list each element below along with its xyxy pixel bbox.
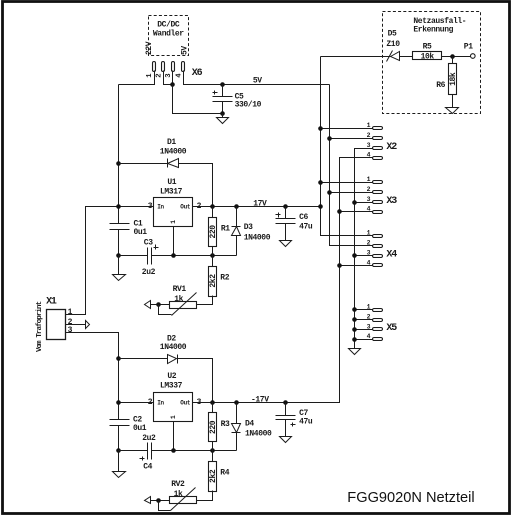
wire C4 to ADJ and R3/R4 node <box>152 450 237 452</box>
svg-text:1: 1 <box>146 73 154 78</box>
node GND bus / X3 pin3 <box>352 200 357 205</box>
svg-text:Out: Out <box>180 400 191 407</box>
arrow (RV2 ground ref) <box>145 497 151 504</box>
connector X6 pin 4 <box>182 62 185 72</box>
capacitor C1 plates <box>110 223 130 225</box>
wire D4 bottom <box>236 433 238 451</box>
connector X5 pin 3 <box>373 328 383 331</box>
svg-text:Z10: Z10 <box>386 40 400 49</box>
svg-text:1N4000: 1N4000 <box>244 233 271 242</box>
svg-text:RV2: RV2 <box>171 480 185 489</box>
svg-text:4: 4 <box>367 333 371 340</box>
connector X3 pin 1 <box>373 181 383 184</box>
connector X2 pin 4 <box>373 157 383 160</box>
svg-text:2: 2 <box>367 132 371 139</box>
wire RV2 wiper tie <box>159 501 171 511</box>
node Out/R3/D2 <box>210 400 215 405</box>
ground (C5) <box>217 118 229 124</box>
wire U1 ADJ pin <box>173 227 175 256</box>
wire gnd node to C4 <box>119 450 148 452</box>
svg-text:DC/DC: DC/DC <box>157 21 180 30</box>
svg-text:2k2: 2k2 <box>209 274 218 288</box>
node C5 bottom / gnd <box>220 111 225 116</box>
Netzausfall-Erkennung box (dashed) <box>383 12 481 114</box>
node ADJ <box>171 253 176 258</box>
connector X6 pin 2 <box>162 62 165 72</box>
node GND bus / X5 pin1 <box>352 307 357 312</box>
node R5/R6/P1 <box>450 54 455 59</box>
node +17V bus / X2 pin1 <box>318 126 323 131</box>
wire D4 top <box>236 403 238 424</box>
capacitor C3 plus sign <box>154 245 159 250</box>
wire lower bus to U2 In <box>119 402 154 404</box>
diode D3 <box>232 226 241 228</box>
svg-text:4: 4 <box>367 259 371 266</box>
wire gnd node to C3 <box>119 255 148 257</box>
svg-text:X1: X1 <box>46 297 57 308</box>
DC/DC converter module box (dashed) <box>149 16 189 56</box>
diode D2 <box>168 355 177 364</box>
svg-text:5V: 5V <box>253 76 262 85</box>
node C1/C3 ground node <box>116 253 121 258</box>
svg-text:2: 2 <box>367 240 371 247</box>
connector X1 box <box>47 310 66 340</box>
svg-text:0u1: 0u1 <box>134 228 148 237</box>
node -17V bus / X3 pin4 <box>337 209 342 214</box>
wire C5 bottom <box>222 102 224 114</box>
wire 22V bus down to C1 <box>118 85 120 224</box>
connector X2 pin 2 <box>373 137 383 140</box>
wire X4 pin3 <box>355 255 374 257</box>
wire R1 top <box>212 207 214 218</box>
svg-text:U2: U2 <box>167 372 176 381</box>
GND bus (vertical) <box>355 149 374 340</box>
svg-text:3: 3 <box>68 326 73 335</box>
svg-text:FGG9020N Netzteil: FGG9020N Netzteil <box>347 490 474 506</box>
svg-text:220: 220 <box>209 420 218 434</box>
node R3/R4/D4 <box>210 448 215 453</box>
-17V bus (vertical) <box>193 158 374 403</box>
wire D1 left <box>119 163 168 165</box>
wire X3 pin3 <box>355 202 374 204</box>
svg-text:2u2: 2u2 <box>142 268 156 277</box>
wire D2 left <box>119 358 168 360</box>
zener diode D5 <box>391 52 400 61</box>
wire GND bus to ground <box>354 340 356 349</box>
node GND bus / X4 pin3 <box>352 253 357 258</box>
wire R4 bottom to RV2 <box>197 491 213 501</box>
ground (C1/C3) <box>113 275 126 281</box>
svg-text:47u: 47u <box>299 222 313 231</box>
svg-text:R2: R2 <box>220 273 229 282</box>
ground (connector bus) <box>349 349 361 355</box>
svg-text:22V: 22V <box>145 41 154 55</box>
wire X5 pin4 <box>355 339 374 341</box>
node 5V bus / X3 pin2 <box>327 190 332 195</box>
svg-text:1k: 1k <box>174 490 183 499</box>
svg-text:1N4000: 1N4000 <box>160 147 187 156</box>
svg-text:1: 1 <box>367 304 371 311</box>
wire D3 top <box>236 207 238 227</box>
wire X1 pin1 to U1 In <box>66 207 154 315</box>
svg-text:10k: 10k <box>421 53 435 62</box>
wire C6 bottom <box>285 224 287 241</box>
wire C5 top <box>222 85 224 97</box>
wire U2 ADJ pin <box>173 422 175 451</box>
svg-text:1k: 1k <box>174 295 183 304</box>
svg-text:LM317: LM317 <box>160 187 183 196</box>
trimmer RV2 body <box>170 497 197 504</box>
svg-text:3: 3 <box>165 73 173 77</box>
trimmer RV1 wiper arrow <box>172 293 197 316</box>
node 22V bus / D1 anode <box>116 161 121 166</box>
svg-text:C6: C6 <box>299 213 308 222</box>
svg-text:R6: R6 <box>436 81 445 90</box>
svg-text:RV1: RV1 <box>173 285 187 294</box>
svg-text:1: 1 <box>170 220 177 224</box>
wire R3 bottom <box>212 442 214 451</box>
wire +17V bus to D5 <box>321 56 391 58</box>
node -17V / C7 <box>283 400 288 405</box>
wire RV1 left <box>151 304 170 306</box>
wire X2 pin1 <box>321 128 374 130</box>
svg-text:3: 3 <box>367 250 371 257</box>
node RV2 wiper tie <box>156 498 161 503</box>
svg-text:X4: X4 <box>386 249 397 260</box>
wire D2 right to output <box>178 359 213 403</box>
svg-text:17V: 17V <box>253 200 267 209</box>
svg-text:R5: R5 <box>423 43 432 52</box>
connector X5 pin 4 <box>373 338 383 341</box>
ground (C7) <box>280 437 292 443</box>
wire X6 pin2 to gnd node <box>164 71 173 85</box>
svg-text:3: 3 <box>367 196 371 203</box>
svg-text:X6: X6 <box>192 68 203 79</box>
svg-text:In: In <box>157 204 164 211</box>
node lower bus / D2 anode <box>116 356 121 361</box>
wire X5 pin3 <box>355 329 374 331</box>
svg-text:LM337: LM337 <box>160 382 183 391</box>
node C2/C4 ground node <box>116 448 121 453</box>
wire R3 top <box>212 403 214 413</box>
svg-text:1N4000: 1N4000 <box>245 429 272 438</box>
node R1/R2/D3 <box>210 253 215 258</box>
node +17V at bus <box>318 204 323 209</box>
connector X3 pin 3 <box>373 201 383 204</box>
svg-text:18k: 18k <box>449 72 458 86</box>
connector X4 pin 2 <box>373 245 383 248</box>
svg-text:Out: Out <box>180 204 191 211</box>
arrow X1 pin2 <box>86 321 90 329</box>
capacitor C5 plates <box>213 96 233 98</box>
connector X3 pin 2 <box>373 191 383 194</box>
wire RV2 left <box>151 500 170 502</box>
capacitor C2 plates <box>110 419 130 421</box>
resistor R5 <box>413 52 442 60</box>
wire D1 right to output <box>179 164 213 207</box>
node Out/R1/D1 <box>210 204 215 209</box>
node -17V bus / X4 pin4 <box>337 263 342 268</box>
svg-text:Wandler: Wandler <box>153 29 184 38</box>
svg-text:R3: R3 <box>221 420 230 429</box>
svg-text:2: 2 <box>155 73 163 77</box>
capacitor C7 plus sign <box>291 423 296 427</box>
resistor R1 <box>209 218 217 247</box>
svg-text:D3: D3 <box>244 223 253 232</box>
capacitor C3 plates <box>147 248 149 265</box>
wire X6 gnd node to C5 bottom <box>173 85 223 114</box>
resistor R2 <box>209 267 217 297</box>
svg-text:3: 3 <box>367 142 371 149</box>
node 22V bus / U1 In line <box>116 204 121 209</box>
connector X4 pin 3 <box>373 255 383 258</box>
svg-text:-17V: -17V <box>251 395 269 404</box>
wire C1 to gnd node <box>118 230 120 256</box>
node GND bus / X5 pin3 <box>352 327 357 332</box>
node +17V bus / X3 pin1 <box>318 180 323 185</box>
node lower bus / U2 In line <box>116 400 121 405</box>
wire U1 Out +17V line <box>193 206 321 208</box>
svg-text:Vom Trafoprint: Vom Trafoprint <box>36 301 44 352</box>
svg-text:D1: D1 <box>167 138 176 147</box>
svg-text:D2: D2 <box>167 334 176 343</box>
wire gnd stub lower <box>118 451 120 472</box>
wire R1 bottom <box>212 247 214 256</box>
node X6 pins 2+3 <box>170 82 175 87</box>
wire C2 to gnd node <box>118 426 120 451</box>
svg-text:2: 2 <box>367 186 371 193</box>
svg-text:2u2: 2u2 <box>142 434 156 443</box>
wire C6 top <box>285 207 287 219</box>
diode D4 <box>232 424 241 433</box>
svg-text:1: 1 <box>367 230 371 237</box>
svg-text:1N4000: 1N4000 <box>160 343 187 352</box>
regulator U1 box <box>154 198 193 227</box>
connector X6 pin 3 <box>172 62 175 72</box>
capacitor C7 plates <box>276 415 296 417</box>
arrow (RV1 ground ref) <box>145 301 151 309</box>
svg-text:X5: X5 <box>386 323 397 334</box>
svg-text:4: 4 <box>367 152 371 159</box>
trimmer RV2 wiper arrow <box>171 488 196 511</box>
svg-text:R1: R1 <box>221 225 230 234</box>
svg-text:2: 2 <box>367 314 371 321</box>
svg-text:1: 1 <box>170 415 177 419</box>
wire R6 to ground <box>452 95 454 108</box>
svg-text:4: 4 <box>176 73 184 78</box>
wire C7 bottom <box>285 420 287 437</box>
capacitor C4 plates <box>147 443 149 460</box>
ground (C6) <box>280 241 292 247</box>
wire C3 to ADJ and R1/R2 node <box>152 255 237 257</box>
svg-text:U1: U1 <box>167 178 176 187</box>
node Out/D4 <box>234 400 239 405</box>
5V bus (vertical) <box>330 85 374 246</box>
wire to ground <box>222 114 224 118</box>
svg-text:1: 1 <box>367 122 371 129</box>
wire X1 pin2 <box>66 324 86 326</box>
test point P1 <box>471 54 476 59</box>
capacitor C4 plus sign <box>140 457 145 461</box>
svg-text:220: 220 <box>209 225 218 239</box>
wire X4 pin4 <box>340 265 374 267</box>
trimmer RV1 body <box>170 302 197 309</box>
svg-text:3: 3 <box>367 323 371 330</box>
svg-text:4: 4 <box>367 206 371 213</box>
wire X2 pin2 <box>330 138 374 140</box>
wire C7 top <box>285 403 287 416</box>
wire node to R6 <box>452 57 454 64</box>
capacitor C5 top node <box>220 82 225 87</box>
node ADJ U2 <box>171 448 176 453</box>
wire R2 top <box>212 256 214 267</box>
resistor R4 <box>209 462 217 492</box>
resistor R6 <box>449 64 457 95</box>
svg-text:C3: C3 <box>144 238 153 247</box>
capacitor C6 plus sign <box>276 213 281 218</box>
node +17V / C6 <box>283 204 288 209</box>
connector X2 pin 3 <box>373 147 383 150</box>
svg-text:47u: 47u <box>299 418 313 427</box>
svg-text:D4: D4 <box>245 419 254 428</box>
connector X5 pin 2 <box>373 319 383 322</box>
wire RV1 wiper tie <box>159 305 172 315</box>
wire R2 bottom to RV1 <box>197 296 213 305</box>
svg-text:R4: R4 <box>220 468 229 477</box>
resistor R3 <box>209 413 217 442</box>
wire D5 to R5 <box>400 56 413 58</box>
svg-text:X2: X2 <box>386 142 397 153</box>
connector X6 pin 1 <box>153 62 156 72</box>
svg-text:C7: C7 <box>299 409 308 418</box>
svg-text:X3: X3 <box>386 196 397 207</box>
node GND bus / X5 pin4 <box>352 337 357 342</box>
wire X3 pin4 <box>340 211 374 213</box>
svg-text:1: 1 <box>367 176 371 183</box>
wire gnd stub <box>118 256 120 275</box>
wire U2 Out -17V line <box>193 402 340 404</box>
wire R5 to P1 <box>442 56 471 58</box>
svg-text:5V: 5V <box>181 46 190 55</box>
diode D1 <box>167 159 169 168</box>
wire X1 pin3 to lower bus <box>66 333 119 420</box>
node GND bus / X5 pin2 <box>352 317 357 322</box>
node 5V bus / X2 pin2 <box>327 136 332 141</box>
capacitor C5 plus sign <box>213 91 218 95</box>
connector X3 pin 4 <box>373 211 383 214</box>
ground (C2/C4) <box>113 472 126 478</box>
wire X5 pin2 <box>355 319 374 321</box>
svg-text:0u1: 0u1 <box>133 424 147 433</box>
wire X6 pin1 to 22V bus <box>119 71 155 85</box>
svg-text:C4: C4 <box>143 463 152 472</box>
svg-text:1: 1 <box>68 308 73 317</box>
wire X3 pin1 <box>321 182 374 184</box>
wire X3 pin2 <box>330 192 374 194</box>
connector X2 pin 1 <box>373 127 383 130</box>
ground (R6) <box>446 108 459 114</box>
wire X6 pin3 to gnd node <box>172 71 174 85</box>
connector X4 pin 1 <box>373 235 383 238</box>
connector X4 pin 4 <box>373 264 383 267</box>
wire D3 bottom <box>236 236 238 256</box>
wire X6 pin4 5V rail <box>184 71 330 85</box>
connector X5 pin 1 <box>373 309 383 312</box>
regulator U2 box <box>154 393 193 422</box>
svg-text:330/10: 330/10 <box>235 101 262 110</box>
svg-text:In: In <box>157 400 164 407</box>
svg-text:P1: P1 <box>464 43 473 52</box>
svg-text:D5: D5 <box>388 30 397 39</box>
svg-text:Erkennung: Erkennung <box>413 25 453 34</box>
svg-text:2k2: 2k2 <box>209 469 218 483</box>
wire R4 top <box>212 451 214 462</box>
capacitor C6 plates <box>276 218 296 220</box>
node Out/D3 <box>234 204 239 209</box>
node RV1 wiper tie <box>156 302 161 307</box>
wire X5 pin1 <box>355 309 374 311</box>
+17V bus (vertical) <box>321 57 374 236</box>
